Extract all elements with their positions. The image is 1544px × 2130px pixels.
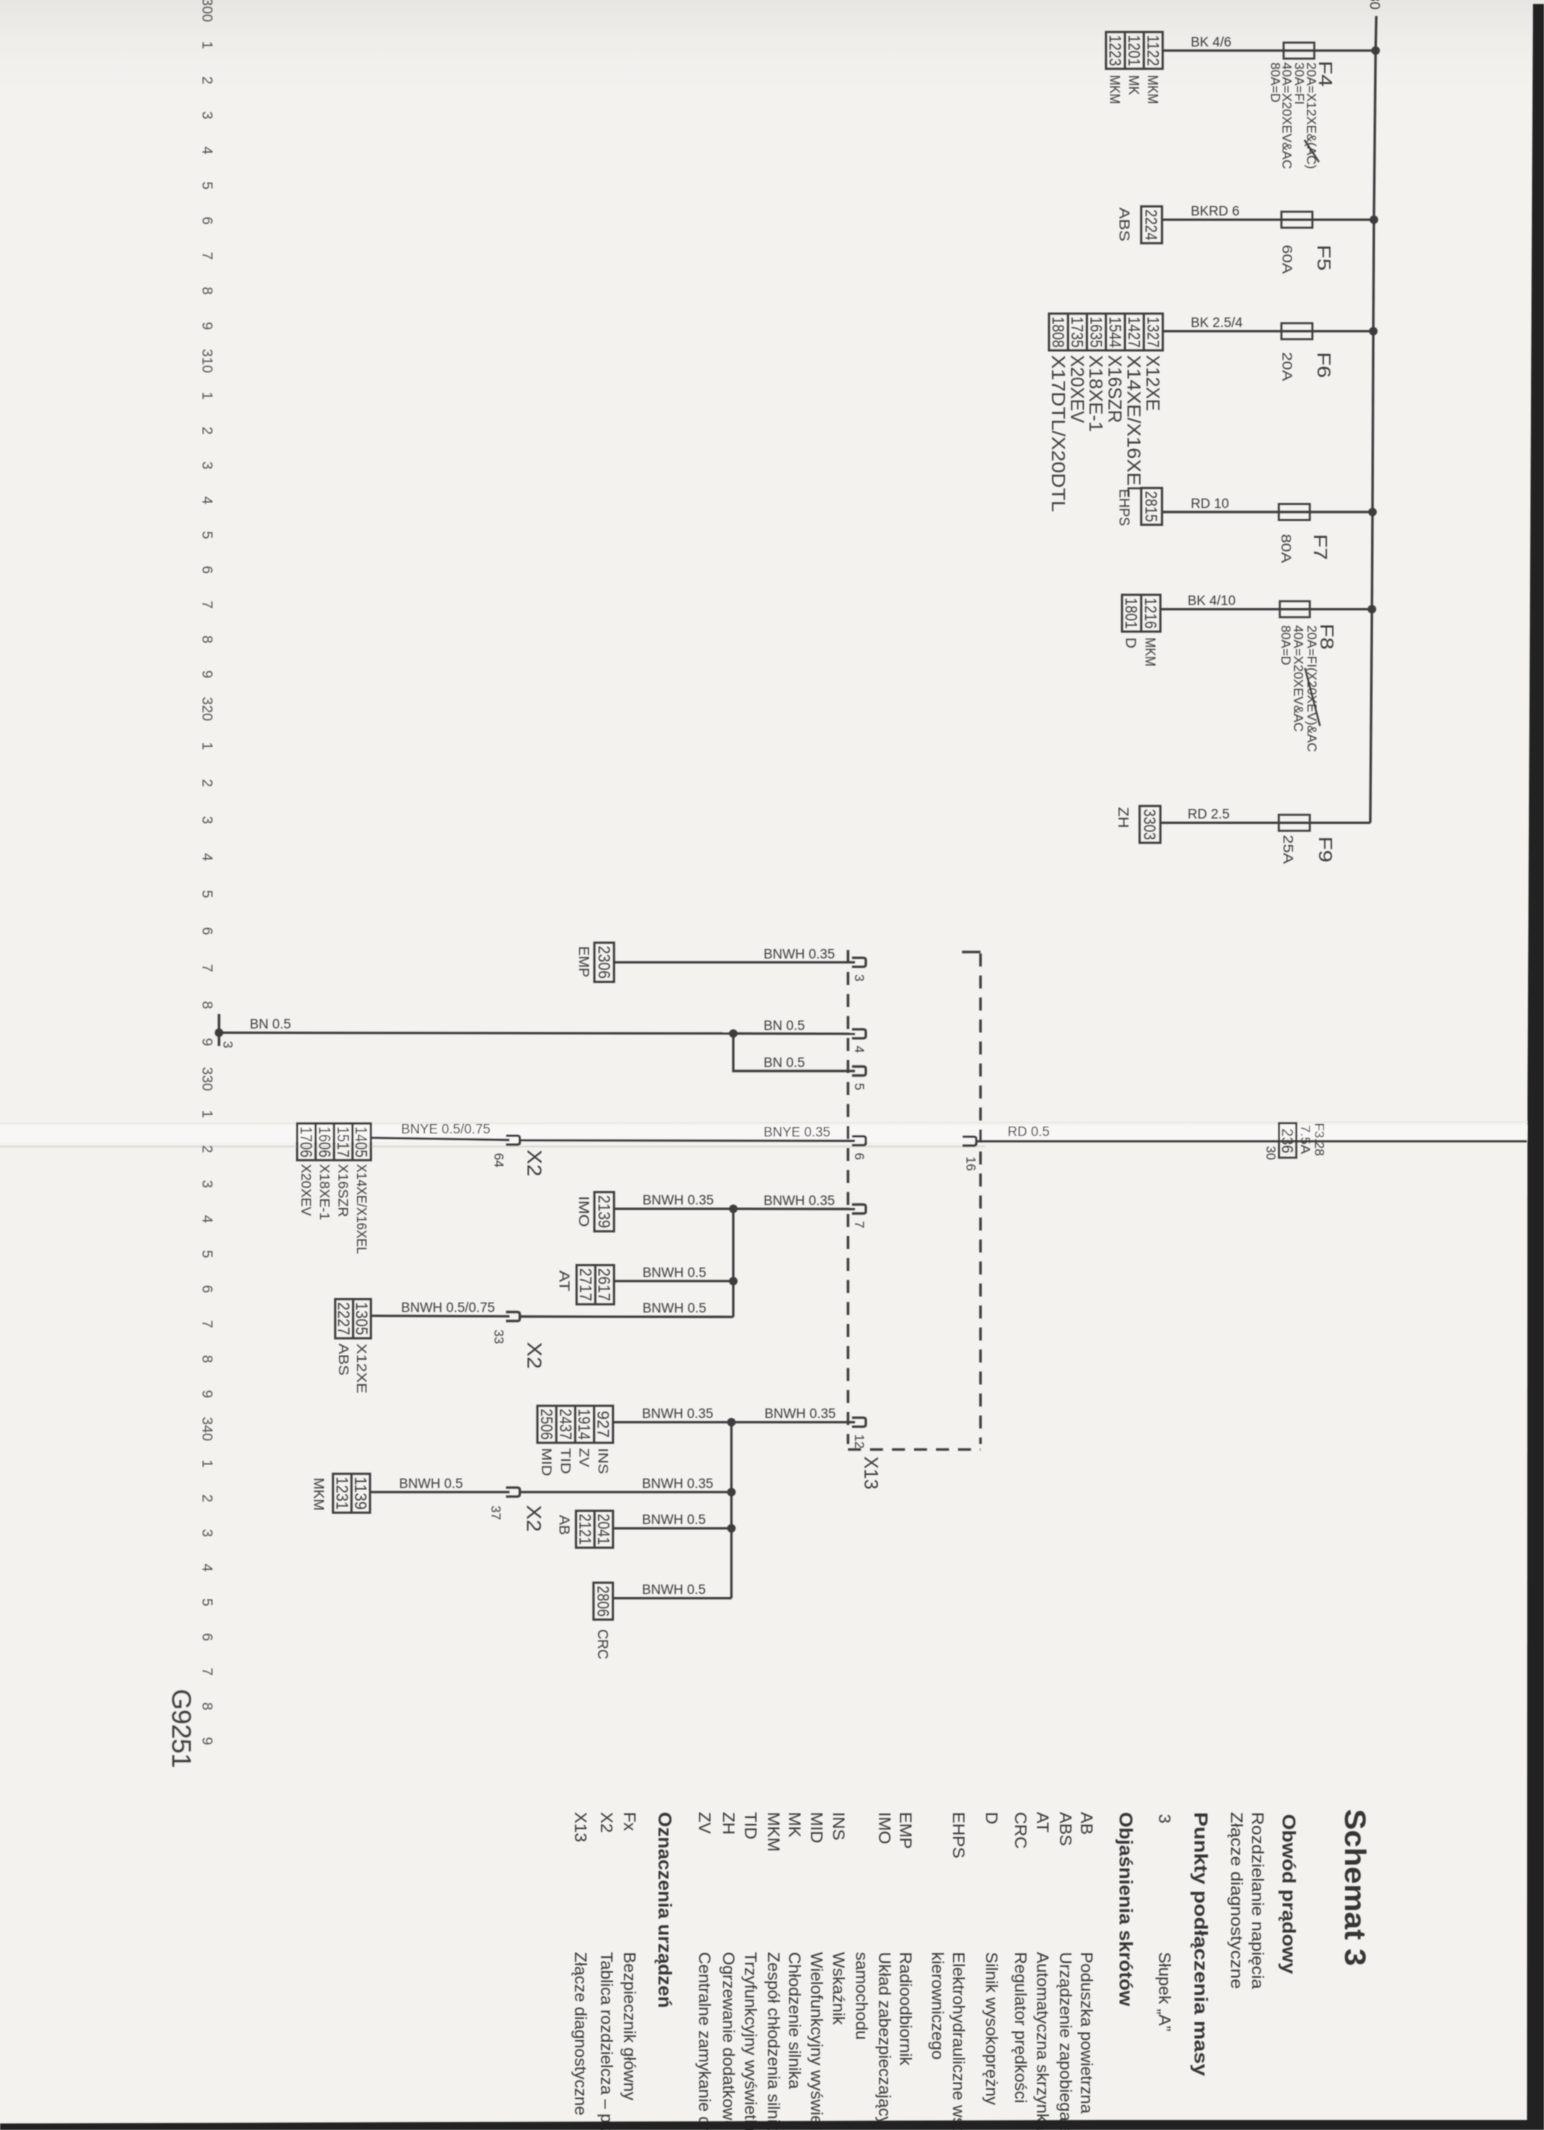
svg-text:X14XE/X16XEL: X14XE/X16XEL: [354, 1164, 369, 1254]
svg-text:1327: 1327: [1143, 317, 1161, 348]
svg-text:Tablica rozdzielcza – przedz: Tablica rozdzielcza – przedz: [597, 1952, 616, 2130]
junction node on bus at F7: [1368, 508, 1377, 517]
svg-text:320: 320: [198, 697, 214, 721]
connector boxes 1808/1735/1635/1544/1427/1327 (engine variants): [1049, 314, 1163, 351]
svg-text:Objaśnienia skrótów: Objaśnienia skrótów: [1116, 1812, 1136, 2007]
svg-text:2: 2: [198, 76, 214, 84]
pin 37 of X2: [506, 1488, 520, 1497]
wire BNWH 0.5 AT to junction: [614, 1280, 733, 1282]
svg-text:BK 4/6: BK 4/6: [1191, 34, 1232, 49]
svg-text:3303: 3303: [1140, 809, 1158, 840]
wire BN 0.5 from ground point 3: [219, 1031, 733, 1034]
wire BNYE 0.35 to pin 6: [520, 1139, 855, 1142]
svg-text:30: 30: [1366, 0, 1382, 10]
svg-text:1: 1: [198, 1460, 214, 1468]
svg-text:9: 9: [198, 1390, 214, 1398]
svg-text:3: 3: [198, 111, 214, 119]
svg-text:MK: MK: [785, 1812, 804, 1838]
svg-text:samochodu: samochodu: [852, 1952, 871, 2040]
svg-text:2224: 2224: [1142, 209, 1160, 240]
svg-text:1122: 1122: [1143, 35, 1161, 66]
junction node BN: [729, 1029, 738, 1038]
svg-text:X2: X2: [522, 1150, 544, 1177]
connector boxes 1223 / 1201 / 1122 (MKM, MK, MKM): [1106, 32, 1163, 69]
svg-text:20A: 20A: [1280, 352, 1296, 382]
boxes 2506/2437/1914/927 (MID,TID,ZV,INS): [537, 1406, 613, 1443]
svg-text:33: 33: [492, 1330, 507, 1344]
svg-text:BK 4/10: BK 4/10: [1188, 593, 1236, 608]
wire RD 10: [1162, 511, 1373, 513]
svg-text:BNWH 0.35: BNWH 0.35: [643, 1193, 714, 1208]
svg-text:BN 0.5: BN 0.5: [764, 1055, 805, 1070]
junction node INS: [727, 1418, 736, 1427]
pin 5 of X13: [852, 1067, 866, 1076]
svg-text:Ogrzewanie dodatkowe: Ogrzewanie dodatkowe: [719, 1952, 738, 2130]
svg-text:927: 927: [594, 1411, 612, 1438]
svg-text:340: 340: [198, 1417, 214, 1441]
svg-text:F7: F7: [1310, 534, 1330, 560]
svg-text:Zespół chłodzenia silnika: Zespół chłodzenia silnika: [764, 1952, 783, 2130]
pin 16 of X13: [963, 1137, 977, 1146]
wire vertical junction IMO-AT-X2.33: [732, 1209, 734, 1317]
svg-text:1305: 1305: [352, 1302, 370, 1335]
wire RD 2.5: [1160, 822, 1370, 824]
svg-text:BN 0.5: BN 0.5: [764, 1018, 805, 1033]
svg-text:kierowniczego: kierowniczego: [928, 1952, 947, 2060]
svg-text:7.5A: 7.5A: [1298, 1125, 1313, 1154]
svg-text:Wskaźnik: Wskaźnik: [829, 1952, 848, 2025]
junction node on bus at F8: [1368, 605, 1377, 614]
pin 12 of X13: [852, 1418, 866, 1427]
svg-text:BN 0.5: BN 0.5: [250, 1017, 291, 1032]
svg-text:8: 8: [198, 287, 214, 295]
connector box 3303 (ZH): [1140, 806, 1161, 843]
svg-text:4: 4: [198, 146, 214, 154]
svg-text:6: 6: [198, 927, 214, 935]
svg-text:X18XE-1: X18XE-1: [317, 1164, 332, 1220]
svg-text:ABS: ABS: [336, 1344, 351, 1376]
svg-text:X16SZR: X16SZR: [1105, 355, 1126, 423]
svg-text:Układ zabezpieczający: Układ zabezpieczający: [875, 1952, 894, 2125]
svg-text:RD 0.5: RD 0.5: [1008, 1124, 1050, 1139]
svg-text:F5: F5: [1313, 245, 1333, 271]
svg-text:2: 2: [198, 1145, 214, 1153]
svg-text:Trzyfunkcyjny wyświetlacz: Trzyfunkcyjny wyświetlacz: [741, 1952, 760, 2130]
svg-text:IMO: IMO: [875, 1812, 894, 1844]
svg-text:ZV: ZV: [695, 1812, 714, 1834]
svg-text:2: 2: [198, 1494, 214, 1502]
svg-text:1808: 1808: [1049, 317, 1067, 348]
svg-text:2306: 2306: [594, 946, 612, 979]
svg-text:BNWH 0.35: BNWH 0.35: [642, 1476, 713, 1491]
junction node on bus at F5: [1370, 215, 1379, 224]
svg-text:4: 4: [198, 853, 214, 861]
svg-text:G9251: G9251: [166, 1689, 196, 1768]
wire BNWH 0.35 INS group to junction: [613, 1421, 731, 1423]
svg-text:IMO: IMO: [575, 1196, 592, 1227]
connector box 2815 (EHPS): [1141, 488, 1162, 525]
svg-text:4: 4: [198, 1215, 214, 1223]
svg-text:1: 1: [198, 392, 214, 400]
svg-text:330: 330: [198, 1067, 214, 1091]
svg-text:X13: X13: [860, 1456, 881, 1489]
svg-text:TID: TID: [558, 1448, 574, 1474]
pin 33 of X2: [506, 1312, 520, 1321]
svg-text:Punkty podłączenia masy: Punkty podłączenia masy: [1191, 1812, 1211, 2076]
svg-text:CRC: CRC: [1011, 1812, 1030, 1849]
svg-text:X12XE: X12XE: [1143, 355, 1164, 411]
svg-text:3: 3: [198, 1180, 214, 1188]
svg-text:7: 7: [198, 1320, 214, 1328]
boxes 2227 / 1305 (ABS, X12XE): [335, 1299, 371, 1338]
svg-text:2041: 2041: [594, 1514, 612, 1545]
svg-text:BNWH 0.35: BNWH 0.35: [764, 1193, 835, 1208]
svg-text:5: 5: [198, 1250, 214, 1258]
svg-text:2815: 2815: [1142, 491, 1160, 522]
svg-text:9: 9: [198, 1737, 214, 1745]
svg-text:ZH: ZH: [719, 1812, 738, 1835]
svg-text:2121: 2121: [575, 1514, 593, 1545]
svg-text:Regulator prędkości: Regulator prędkości: [1011, 1952, 1030, 2103]
svg-text:MKM: MKM: [310, 1478, 327, 1511]
svg-text:1606: 1606: [315, 1127, 333, 1158]
svg-text:2: 2: [198, 427, 214, 435]
svg-text:5: 5: [852, 1083, 867, 1090]
svg-text:EHPS: EHPS: [1116, 489, 1133, 526]
svg-text:Radioodbiornik: Radioodbiornik: [896, 1952, 915, 2066]
pin 7 of X13: [852, 1205, 866, 1214]
connector box 2224 (ABS): [1141, 206, 1162, 243]
svg-text:8: 8: [198, 1001, 214, 1009]
junction node AB: [727, 1524, 736, 1533]
svg-text:6: 6: [198, 217, 214, 225]
svg-text:2717: 2717: [576, 1268, 594, 1301]
svg-text:AT: AT: [556, 1270, 573, 1291]
boxes 1231 / 1139 (MKM): [333, 1474, 370, 1513]
legend titles and abbreviation list: [571, 1809, 1371, 2130]
svg-text:Słupek „A”: Słupek „A”: [1155, 1952, 1174, 2032]
ground point 3 (slupek A): [218, 1014, 221, 1046]
svg-text:60A: 60A: [1280, 245, 1296, 275]
svg-text:3: 3: [1155, 1814, 1174, 1823]
svg-text:1: 1: [198, 1110, 214, 1118]
svg-text:BNWH 0.5: BNWH 0.5: [642, 1582, 706, 1597]
svg-text:BNWH 0.5: BNWH 0.5: [642, 1512, 706, 1527]
svg-text:5: 5: [198, 1598, 214, 1606]
svg-text:BNYE 0.35: BNYE 0.35: [764, 1124, 831, 1139]
svg-text:2437: 2437: [556, 1409, 574, 1440]
svg-text:30: 30: [1264, 1146, 1278, 1160]
svg-text:2617: 2617: [595, 1268, 613, 1301]
svg-text:236: 236: [1278, 1128, 1295, 1153]
svg-text:F6: F6: [1313, 352, 1333, 378]
junction node on bus at F6: [1369, 327, 1378, 336]
boxes 1706/1606/1517/1405 (engine variants, X2 feed): [297, 1124, 371, 1161]
svg-text:1216: 1216: [1141, 598, 1159, 629]
svg-text:80A=D: 80A=D: [1268, 62, 1283, 102]
svg-text:1735: 1735: [1068, 317, 1086, 348]
svg-text:BK 2.5/4: BK 2.5/4: [1191, 315, 1243, 330]
wire vertical junction INS-AB-CRC: [730, 1422, 732, 1598]
pin 6 of X13: [852, 1136, 866, 1145]
svg-text:ABS: ABS: [1116, 208, 1133, 242]
svg-text:64: 64: [492, 1153, 507, 1167]
svg-text:9: 9: [198, 1038, 214, 1046]
svg-text:BNWH 0.5: BNWH 0.5: [643, 1265, 707, 1280]
svg-text:X20XEV: X20XEV: [1067, 355, 1088, 424]
wire BN 0.5 to pin 4: [733, 1032, 855, 1035]
svg-text:F9: F9: [1315, 836, 1335, 862]
svg-text:4: 4: [198, 496, 214, 504]
svg-text:80A=D: 80A=D: [1279, 625, 1294, 665]
svg-text:RD 10: RD 10: [1191, 496, 1229, 511]
svg-text:3: 3: [198, 1529, 214, 1537]
svg-text:BNWH 0.5: BNWH 0.5: [643, 1301, 707, 1316]
wire BNWH 0.5 AB to junction: [613, 1527, 731, 1529]
svg-text:5: 5: [198, 182, 214, 190]
svg-text:Oznaczenia urządzeń: Oznaczenia urządzeń: [655, 1812, 675, 2008]
svg-text:Urządzenie zapobiegające: Urządzenie zapobiegające: [1056, 1952, 1075, 2130]
svg-text:Poduszka powietrzna: Poduszka powietrzna: [1077, 1952, 1096, 2114]
svg-text:1201: 1201: [1124, 35, 1142, 66]
junction node AT: [729, 1277, 738, 1286]
svg-text:Rozdzielanie napięcia: Rozdzielanie napięcia: [1248, 1812, 1267, 1990]
svg-text:7: 7: [852, 1221, 867, 1228]
svg-text:Silnik wysokoprężny: Silnik wysokoprężny: [982, 1952, 1001, 2106]
box 2139 (IMO immobiliser): [594, 1192, 614, 1231]
svg-text:1635: 1635: [1087, 317, 1105, 348]
svg-text:AB: AB: [556, 1515, 573, 1535]
svg-text:INS: INS: [596, 1448, 612, 1474]
svg-text:1405: 1405: [352, 1127, 370, 1158]
svg-text:2: 2: [198, 779, 214, 787]
fuse F7: [1279, 504, 1310, 520]
svg-text:300: 300: [198, 0, 214, 22]
svg-text:1801: 1801: [1122, 598, 1140, 629]
svg-text:BNWH 0.35: BNWH 0.35: [642, 1406, 713, 1421]
svg-text:80A: 80A: [1279, 534, 1295, 564]
wire BNWH 0.35 junction to pin 7: [733, 1208, 855, 1211]
svg-text:EMP: EMP: [575, 946, 592, 977]
svg-text:CRC: CRC: [594, 1629, 611, 1659]
svg-text:MKM: MKM: [764, 1812, 783, 1852]
svg-text:Fx: Fx: [620, 1812, 639, 1831]
svg-text:7: 7: [198, 964, 214, 972]
pin 4 of X13: [852, 1029, 866, 1038]
svg-text:X20XEV: X20XEV: [298, 1164, 313, 1216]
wire BNWH 0.5 CRC to junction: [613, 1597, 731, 1599]
svg-text:9: 9: [198, 670, 214, 678]
svg-text:16: 16: [964, 1157, 979, 1171]
svg-text:5: 5: [198, 531, 214, 539]
svg-text:Centralne zamykanie drzwi: Centralne zamykanie drzwi: [695, 1952, 714, 2130]
wire BK 4/6: [1163, 49, 1376, 51]
svg-text:F3.28: F3.28: [1312, 1123, 1327, 1156]
svg-text:ABS: ABS: [1056, 1812, 1075, 1846]
svg-text:8: 8: [198, 635, 214, 643]
svg-text:310: 310: [198, 349, 214, 373]
pin 3 of X13: [852, 958, 866, 967]
svg-text:1544: 1544: [1106, 317, 1124, 348]
svg-text:X16SZR: X16SZR: [335, 1164, 350, 1217]
svg-text:BNWH 0.35: BNWH 0.35: [765, 1406, 836, 1421]
svg-text:1427: 1427: [1124, 317, 1142, 348]
svg-text:Wielofunkcyjny wyświetlacz: Wielofunkcyjny wyświetlacz: [807, 1952, 826, 2130]
svg-text:2227: 2227: [334, 1302, 352, 1335]
svg-text:MK: MK: [1125, 75, 1142, 95]
svg-text:X2: X2: [597, 1812, 616, 1833]
wire BNWH 0.5 pin 33 to junction: [520, 1315, 733, 1318]
svg-text:Obwód prądowy: Obwód prądowy: [1279, 1814, 1299, 1974]
svg-text:6: 6: [198, 566, 214, 574]
svg-text:MKM: MKM: [1106, 75, 1123, 104]
svg-text:D: D: [982, 1812, 1001, 1824]
svg-text:3: 3: [221, 1041, 236, 1048]
svg-text:8: 8: [198, 1702, 214, 1710]
svg-text:AB: AB: [1077, 1812, 1096, 1835]
svg-text:4: 4: [852, 1046, 867, 1053]
wire BNWH 0.35 EMP to pin 3: [614, 961, 855, 963]
svg-text:MKM: MKM: [1141, 638, 1158, 667]
connector boxes 1801 / 1216 (D, MKM): [1122, 595, 1160, 632]
wire RD 0.5 from pin 16 to fuse F3.28 and edge: [976, 1140, 1527, 1142]
svg-text:Elektrohydrauliczne wspom: Elektrohydrauliczne wspom: [949, 1952, 968, 2130]
boxes 2717 / 2617 (AT): [577, 1265, 614, 1304]
fuse F3.28 in box 236: [1279, 1123, 1296, 1158]
pin 64 of X2: [506, 1136, 520, 1145]
svg-text:25A: 25A: [1280, 835, 1296, 865]
wire BKRD 6: [1162, 218, 1374, 220]
svg-text:1914: 1914: [575, 1409, 593, 1440]
svg-text:7: 7: [198, 1668, 214, 1676]
svg-text:EHPS: EHPS: [949, 1812, 968, 1858]
connector X13 (diagnostic) dashed outline: [847, 950, 850, 1444]
ruler column (grid reference numbers 300-349): [198, 0, 214, 1745]
svg-text:8: 8: [198, 1355, 214, 1363]
svg-text:AT: AT: [1033, 1812, 1052, 1832]
svg-text:MID: MID: [807, 1812, 826, 1843]
wire BNWH 0.35 IMO to junction: [614, 1208, 733, 1210]
wire BNWH 0.35 junction to pin 12: [731, 1421, 855, 1423]
svg-text:1: 1: [198, 742, 214, 750]
fuse F6: [1281, 323, 1312, 339]
svg-text:3: 3: [852, 974, 867, 981]
svg-text:6: 6: [198, 1285, 214, 1293]
svg-text:1231: 1231: [332, 1477, 350, 1510]
svg-text:X17DTL/X20DTL: X17DTL/X20DTL: [1048, 355, 1069, 512]
svg-text:X12XE: X12XE: [354, 1344, 369, 1394]
svg-text:1: 1: [198, 41, 214, 49]
svg-text:INS: INS: [829, 1812, 848, 1840]
fuse F9: [1279, 815, 1310, 831]
svg-text:ZH: ZH: [1115, 807, 1132, 828]
svg-text:MID: MID: [539, 1448, 555, 1476]
svg-text:1139: 1139: [351, 1477, 369, 1510]
svg-text:3: 3: [198, 816, 214, 824]
svg-text:7: 7: [198, 252, 214, 260]
svg-text:BNWH 0.35: BNWH 0.35: [764, 947, 835, 962]
box 2306 (EMP radio): [594, 943, 614, 982]
wire BK 2.5/4: [1163, 330, 1374, 332]
svg-text:X2: X2: [522, 1342, 544, 1369]
wire BNWH 0.5/0.75 to X2 pin 33: [371, 1315, 510, 1318]
svg-text:RD 2.5: RD 2.5: [1188, 807, 1230, 822]
fuse F8: [1280, 601, 1310, 617]
svg-text:Automatyczna skrzynka: Automatyczna skrzynka: [1033, 1952, 1052, 2130]
fuse F5: [1281, 212, 1312, 228]
svg-text:D: D: [1122, 638, 1139, 649]
svg-text:BKRD 6: BKRD 6: [1191, 204, 1240, 219]
svg-text:EMP: EMP: [896, 1812, 915, 1849]
wire BNWH 0.35 pin 37 to junction: [520, 1491, 731, 1493]
wire BNYE 0.5/0.75 to X2 pin 64: [371, 1138, 510, 1140]
box 2806 (CRC cruise control): [594, 1583, 613, 1620]
svg-text:BNWH 0.5: BNWH 0.5: [399, 1476, 463, 1491]
svg-text:5: 5: [198, 890, 214, 898]
svg-text:TID: TID: [741, 1812, 760, 1839]
junction node MKM wire: [727, 1488, 736, 1497]
svg-text:2506: 2506: [537, 1409, 555, 1440]
junction node on bus at F4: [1371, 46, 1380, 55]
svg-text:BNWH 0.5/0.75: BNWH 0.5/0.75: [401, 1300, 495, 1315]
svg-text:6: 6: [198, 1633, 214, 1641]
svg-text:12: 12: [852, 1434, 867, 1448]
svg-text:MKM: MKM: [1144, 75, 1161, 104]
wire BK 4/10: [1160, 608, 1372, 610]
svg-text:4: 4: [198, 1564, 214, 1572]
svg-text:ZV: ZV: [577, 1448, 593, 1468]
svg-text:Bezpiecznik główny: Bezpiecznik główny: [620, 1952, 639, 2101]
svg-text:X18XE-1: X18XE-1: [1086, 355, 1107, 432]
svg-text:7: 7: [198, 601, 214, 609]
svg-text:Złącze diagnostyczne: Złącze diagnostyczne: [1227, 1812, 1246, 1989]
svg-text:1517: 1517: [333, 1127, 351, 1158]
boxes 2121 / 2041 (AB airbag): [576, 1511, 613, 1548]
svg-text:37: 37: [489, 1506, 504, 1520]
svg-text:1706: 1706: [296, 1127, 314, 1158]
svg-text:2139: 2139: [594, 1195, 612, 1228]
svg-text:X2: X2: [522, 1505, 544, 1532]
wire BNWH 0.5 MKM to X2 pin 37: [370, 1491, 510, 1493]
wire BN 0.5 branch to pin 5: [733, 1034, 855, 1072]
fuse F4: [1284, 43, 1315, 59]
svg-text:X13: X13: [571, 1812, 590, 1842]
scan edge bands: [1527, 4, 1544, 2130]
svg-text:Chłodzenie silnika: Chłodzenie silnika: [785, 1952, 804, 2090]
svg-text:6: 6: [852, 1153, 867, 1160]
junction node IMO/AT: [729, 1205, 738, 1214]
svg-text:BNYE 0.5/0.75: BNYE 0.5/0.75: [401, 1122, 490, 1137]
svg-text:Złącze diagnostyczne: Złącze diagnostyczne: [571, 1952, 590, 2115]
svg-text:Schemat 3: Schemat 3: [1338, 1809, 1371, 1966]
wire bus 30 vertical: [1370, 16, 1376, 823]
svg-text:3: 3: [198, 461, 214, 469]
svg-text:1223: 1223: [1106, 35, 1124, 66]
svg-text:X14XE/X16XEL: X14XE/X16XEL: [1124, 355, 1145, 497]
svg-text:2806: 2806: [593, 1586, 611, 1617]
svg-text:9: 9: [198, 322, 214, 330]
